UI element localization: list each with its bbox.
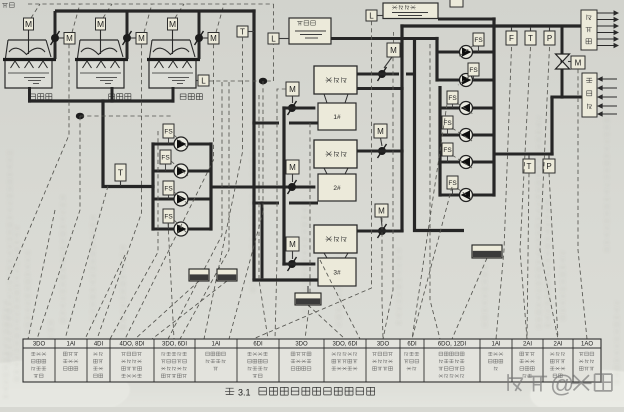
pipe chilled water supply main [400,24,581,27]
pump P4 cooling water [174,222,188,236]
svg-text:M: M [97,19,104,29]
pipe elbow main A to chiller 3 condenser [252,278,318,281]
water collector 集水器 [582,73,597,117]
chiller U3 制冷机 [314,225,357,286]
pipe cooling water supply main to towers [55,9,256,12]
svg-text:1AO: 1AO [581,342,593,348]
motorized valve chiller 1 chilled outlet [378,32,401,81]
pipe condenser branch riser [261,201,264,278]
watermark 知乎@老史 [508,371,612,398]
pump P9 chilled water [460,156,473,169]
pipe chiller 1 plain stub [357,87,404,90]
wire FS right to col11 [412,187,452,339]
flow switch FS1 [163,124,188,148]
svg-text:1#: 1# [333,114,341,121]
svg-text:FS: FS [474,37,483,44]
svg-text:3DO: 3DO [33,342,46,348]
expansion tank connection pipe [438,18,496,21]
pipe CT1 basin drain [28,87,31,103]
svg-text:3DO, 6DI: 3DO, 6DI [332,342,357,348]
svg-text:M: M [289,240,296,249]
cooling tower CT2 label 冷却塔 [109,94,131,100]
page corner mark [2,3,14,8]
wire T top to col6 [204,37,243,339]
local panel DDC4 [472,245,502,258]
pipe condenser pump discharge to riser B [211,186,315,189]
wire F to col13 [496,47,512,339]
pipe condenser pump row 1 [153,143,211,146]
wire aux mid c [320,260,360,339]
svg-text:FS: FS [164,213,173,220]
wire tower node to col1 [37,116,80,339]
cooling tower CT3 [147,18,200,88]
makeup water tank 补水箱 [289,18,331,44]
pipe condenser pump row 2 [153,170,211,173]
chiller U2 制冷机 [314,140,357,201]
svg-text:3DO: 3DO [377,342,390,348]
pressure sensor P chilled supply [544,27,555,45]
motorized valve M1 cooling tower CT1 inlet [51,11,76,59]
distributor outlet arrows [597,11,618,48]
local panel DDC1 [189,269,209,281]
pipe chilled pump discharge header [492,17,495,196]
svg-text:3#: 3# [333,269,341,276]
wire aux near main [259,95,268,339]
motorized valve M3 cooling tower CT3 inlet [195,11,220,59]
pipe chilled riser R2 [415,37,465,231]
flow sensor F chilled supply [506,27,517,45]
node junction tower wiring [76,113,84,120]
wire aux left b [85,255,125,339]
pressure sensor P chilled return [543,155,555,173]
svg-text:L: L [369,11,374,20]
wire chiller M left to col8 [275,89,286,339]
svg-text:@: @ [550,371,574,398]
wire dashed drop to fan motor M CT2 [103,4,112,18]
wire dashed drop to level sensor L makeup tank [273,4,275,33]
motorized valve chiller 3 condenser [286,237,299,271]
expansion tank 膨胀水箱 [383,3,438,19]
svg-text:1AI: 1AI [491,342,500,348]
pipe condenser supply riser B [282,106,285,265]
wire chiller M right to col10 [383,57,393,339]
level sensor L makeup tank [268,33,289,44]
chiller U1 制冷机 [314,66,357,130]
svg-text:FS: FS [164,128,173,135]
flow switch FS3 [163,181,188,204]
small box at top edge [450,0,463,7]
wire tower fan bus b [180,82,229,339]
cooling tower CT1 [3,18,56,88]
motorized valve M2 cooling tower CT2 inlet [123,11,148,59]
wire dashed drop to valve M3 [216,4,224,33]
pipe chiller 3 chilled outlet [357,230,404,233]
svg-text:FS: FS [448,180,457,187]
wire dashed drop to valve M2 [144,4,152,33]
pipe chilled pump row 6 [440,194,494,197]
svg-text:M: M [378,206,385,215]
local panel DDC2 [217,269,237,281]
motorized valve chiller 1 condenser [286,82,299,115]
pipe chiller 2 condenser outlet [252,202,318,205]
wire T sup to col14 [520,47,531,339]
pipe chilled pump row 5 [440,161,494,164]
wire T cooling to col2 [65,186,108,339]
svg-text:M: M [66,34,73,43]
wire chiller aux to col8b [305,123,310,339]
pipe chiller 1 condenser inlet [282,107,315,110]
temperature sensor T chilled return [523,155,535,173]
motorized valve chiller 2 condenser [286,160,299,194]
wire chiller M3 right to col10b [382,218,383,339]
water distributor 分水器 [581,10,597,50]
pipe condenser pump row 3 [153,198,211,201]
svg-text:FS: FS [469,67,478,74]
pipe chilled supply riser R1 [400,24,403,232]
svg-text:M: M [25,19,32,29]
svg-text:M: M [210,34,217,43]
svg-text:L: L [201,76,206,85]
node junction level wiring [259,78,267,85]
svg-text:T: T [528,34,533,43]
pump P10 chilled water [460,189,473,202]
pipe tower drain header [28,99,175,102]
svg-text:F: F [509,34,514,43]
wire DDC4 to col12 [452,258,487,339]
pipe chiller 2 chilled outlet [357,150,404,153]
wire T ret to col14b [527,173,529,339]
pump P7 chilled water [460,102,473,115]
svg-text:M: M [289,85,296,94]
pump P1 cooling water [174,137,188,151]
wire dashed drop to valve M1 [72,4,80,33]
wire level node to col7 [229,81,263,339]
svg-text:3.1: 3.1 [238,388,251,398]
pipe chilled pump row 3 [440,107,494,110]
svg-text:M: M [377,127,384,136]
pipe chiller 3 condenser inlet [282,263,315,266]
pipe chilled pump row 1 [437,51,494,54]
wire dashed drop to fan motor M CT3 [175,4,184,18]
wire L expansion to col7b [253,21,372,339]
svg-text:M: M [169,19,176,29]
cooling tower CT3 label 冷却塔 [180,94,202,100]
temperature sensor T tower inlet [237,26,254,37]
pipe chilled pump header upper [435,37,438,82]
collector return arrows [598,77,617,116]
svg-text:FS: FS [164,185,173,192]
wire FS chain to col3b [110,131,158,339]
pipe condenser pump discharge header [209,142,212,230]
pump P6 chilled water [460,74,473,87]
flow switch FS10 [447,176,473,200]
pipe cooling return main riser A [252,9,255,280]
svg-text:M: M [289,163,296,172]
temperature sensor T cooling water [115,164,126,186]
pump P2 cooling water [174,164,188,178]
wire aux to col12 [430,44,440,339]
pump P8 chilled water [460,129,473,142]
pipe tower water down-drop [103,99,155,186]
flow switch FS9 [442,143,472,168]
svg-text:3DO: 3DO [295,342,308,348]
svg-text:M: M [138,34,145,43]
wire P sup to col15 [540,47,558,339]
svg-text:FS: FS [161,154,170,161]
wire FS4 to col5 [168,223,174,339]
svg-text:T: T [240,27,245,36]
pipe condenser pump suction header [151,142,154,230]
svg-text:FS: FS [448,95,457,102]
wire M1 to panel [8,44,69,280]
motorized valve chiller 3 chilled outlet [375,204,388,238]
svg-text:4DI: 4DI [94,342,104,348]
svg-text:6DI: 6DI [407,342,417,348]
motorized valve chiller 2 chilled outlet [374,124,387,158]
svg-text:P: P [547,34,552,43]
svg-text:P: P [546,162,551,171]
wire dashed drop to fan motor M CT1 [31,4,40,18]
pipe chilled pump row 4 [440,134,494,137]
svg-text:FS: FS [443,147,452,154]
wire P ret to col15b [549,173,558,339]
svg-text:M: M [390,46,397,55]
flow switch FS8 [442,116,472,141]
flow switch FS4 [163,209,188,234]
control bus (dashed) top [28,3,274,5]
wire dashed tower levels horizontal [80,115,172,117]
svg-text:2AI: 2AI [523,342,532,348]
wire DDC3 to col9 [308,305,345,339]
svg-text:T: T [118,168,123,178]
temperature sensor T chilled supply [525,27,536,45]
wire DDC2 to col4b [152,281,227,339]
wire DDC1 to col4 [135,281,199,339]
pipe chiller 1 condenser outlet [252,122,318,125]
wire aux left a [28,210,55,339]
svg-text:6DO, 12DI: 6DO, 12DI [438,342,467,348]
local panel DDC3 [295,286,321,305]
svg-text:3DO, 6DI: 3DO, 6DI [162,342,187,348]
terminal table frame [23,339,601,382]
level sensor L expansion tank [366,10,383,21]
svg-text:4DO, 8DI: 4DO, 8DI [119,342,144,348]
pipe CT2 basin drain [111,87,114,103]
cooling tower CT2 [75,18,128,88]
cooling tower CT1 label 冷却塔 [30,94,52,100]
pipe chilled pump row 2 [437,79,494,82]
svg-text:1AI: 1AI [66,342,75,348]
pump P3 cooling water [174,192,188,206]
pump P5 chilled water [460,46,473,59]
wire M3 to col4 [125,44,214,339]
svg-text:L: L [271,34,276,43]
caption 图3.1 空调制冷系统控制原理图 [225,387,375,397]
flow switch FS5 [458,33,484,57]
wire bypass M to col16 [578,69,587,339]
wire dashed level sensors chain [209,44,274,81]
flow switch FS6 [458,63,479,85]
wire tower fan bus a [168,82,222,339]
flow switch FS2 [160,150,188,176]
wire FS7 to col11b [412,104,447,339]
svg-text:6DI: 6DI [253,342,263,348]
makeup tank outlet pipe [331,37,439,40]
flow switch FS7 [447,91,473,114]
svg-text:T: T [527,162,532,171]
pipe chilled pump header lower [438,86,441,197]
svg-text:M: M [575,58,582,67]
svg-text:2#: 2# [333,185,341,192]
wire M2 to col3 [97,44,142,339]
pipe condenser pump row 4 [153,228,211,231]
pipe CT3 basin drain [172,87,175,103]
bypass valve (two-triangle) [556,54,570,69]
terminal table body text [31,352,594,378]
pipe chiller 1 chilled outlet [357,73,416,76]
pipe chilled water return main [494,97,582,156]
terminal table headers [33,342,594,348]
svg-text:2AI: 2AI [553,342,562,348]
bypass valve motor M [568,56,585,69]
level sensor L cooling tower CT3 [196,75,209,86]
bypass pipe [561,26,564,99]
svg-text:1AI: 1AI [211,342,220,348]
